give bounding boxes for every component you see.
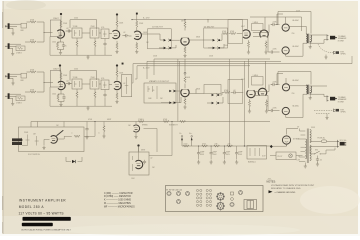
tube V4 driver [181, 38, 189, 45]
bleed resistors to ground ch1 [76, 38, 107, 50]
tube V11 [181, 89, 189, 96]
svg-text:.05: .05 [152, 90, 154, 92]
cathode V10 [115, 91, 118, 104]
svg-text:VOLTAGES READ WITH VTVM FROM P: VOLTAGES READ WITH VTVM FROM POINT [271, 184, 315, 187]
svg-text:1 MEG: 1 MEG [253, 75, 259, 77]
B+ node V2 [116, 13, 118, 20]
ground jack J2 [11, 52, 14, 56]
speaker jack ch1 [310, 35, 337, 44]
speaker jack ch2 [310, 86, 337, 102]
output tube V15 6L6 [282, 105, 299, 114]
tremolo speed resistor 3 [180, 120, 186, 122]
mid bus lines [133, 59, 352, 66]
ground cathode V9 [59, 103, 62, 107]
feedback wire ch2 [70, 69, 97, 81]
svg-text:117 VOLTS 60 ~ 95 WATTS: 117 VOLTS 60 ~ 95 WATTS [19, 212, 64, 216]
primary wires to fuse [310, 141, 338, 146]
filter cap 3 [223, 146, 231, 164]
ground bus ch1 [50, 37, 112, 60]
grid stopper box J3 [21, 73, 27, 82]
coupling to output grids ch2 [254, 74, 284, 113]
tremolo tube V16 [51, 130, 64, 143]
wire grid join ch2 [43, 72, 53, 92]
plate resistor V2 [116, 16, 124, 30]
footswitch diode mark [66, 157, 82, 163]
ext speaker jack ch2 [314, 109, 339, 120]
svg-text:= CHASSIS GROUND: = CHASSIS GROUND [275, 191, 296, 194]
coupling box ch2 PI [228, 80, 243, 104]
title line 1 [19, 199, 67, 216]
page number [267, 179, 272, 181]
svg-text:BIAS ADJ.: BIAS ADJ. [248, 161, 256, 164]
B+ square node mid [122, 63, 124, 65]
ground jack J3 [11, 81, 14, 85]
B+ rail arrows [180, 133, 193, 146]
cathode V2 [115, 41, 118, 54]
svg-text:.02: .02 [123, 32, 125, 34]
top bus ch1 [132, 19, 248, 22]
svg-text:B+ 425V: B+ 425V [143, 17, 150, 19]
svg-text:.1: .1 [71, 133, 72, 135]
phase inverter tube V13 [258, 88, 267, 95]
svg-text:117V. 60~: 117V. 60~ [340, 140, 347, 142]
svg-text:6SL7: 6SL7 [241, 26, 245, 28]
coupling cap ch2 PI [231, 90, 244, 94]
chassis sockets left row [166, 190, 190, 204]
svg-text:2200: 2200 [74, 18, 78, 20]
PI cathode resistors ch2 [248, 99, 268, 113]
coupling box ch2 [189, 85, 221, 94]
svg-text:1/2 6SL7GT: 1/2 6SL7GT [152, 26, 164, 28]
tremolo speed resistor 1 [138, 119, 144, 123]
svg-text:1 MEG: 1 MEG [253, 22, 259, 24]
svg-text:6L6GC: 6L6GC [293, 46, 300, 48]
tremolo bus wire [31, 122, 270, 128]
B+ node osc [137, 144, 139, 159]
mixing resistor Rb [229, 31, 243, 35]
mid bus left drops [132, 59, 154, 83]
rail resistor 1 [183, 143, 189, 147]
bias box [247, 146, 267, 164]
ground jack J4 [11, 102, 14, 106]
ground jack J1 [11, 31, 14, 35]
trem coupling parts [85, 122, 105, 140]
svg-text:1 MEG: 1 MEG [16, 52, 22, 54]
section label 6SL7 left [148, 26, 172, 57]
tremolo control box [19, 127, 85, 152]
svg-text:12AX7: 12AX7 [53, 17, 59, 20]
rail resistor 3 [214, 143, 220, 147]
svg-text:R (OHM) —— RESISTOR: R (OHM) —— RESISTOR [104, 196, 131, 198]
svg-text:SPEED: SPEED [142, 124, 149, 126]
coupling box ch1 PI [228, 20, 243, 44]
connector pair vib upper [169, 90, 180, 93]
input jack J2 [5, 43, 21, 51]
svg-text:VOL: VOL [101, 78, 105, 80]
svg-text:1500: 1500 [52, 42, 56, 44]
connector pair ch2 lower [207, 97, 223, 105]
connector pair ch2 upper [212, 94, 220, 97]
chassis terminal strips [196, 189, 211, 206]
ext speaker text ch1 [341, 51, 347, 55]
svg-text:1 MEG: 1 MEG [16, 102, 22, 104]
svg-text:4700: 4700 [202, 143, 206, 145]
tone pot box 2 ch2 [90, 77, 99, 89]
svg-text:250: 250 [292, 93, 295, 95]
svg-text:250: 250 [292, 33, 295, 35]
long vertical drops [230, 59, 245, 146]
misc value labels [28, 11, 316, 181]
resistor R21 470K [27, 70, 45, 74]
svg-text:6L6GC: 6L6GC [293, 105, 300, 107]
svg-text:1500: 1500 [184, 143, 188, 145]
plate wires to T2 [286, 78, 306, 118]
ext speaker text ch2 [341, 109, 347, 113]
depth pot box [122, 75, 132, 97]
phase inverter tube V6 [260, 30, 269, 37]
grid network box V9 [50, 71, 60, 88]
cathode V3 [135, 42, 138, 54]
speaker jack ch1 text [338, 35, 347, 43]
connector pair ch1 out upper [213, 39, 221, 42]
svg-text:PILOT: PILOT [278, 156, 283, 158]
svg-text:VIBRATO 1/2 6SL7GT: VIBRATO 1/2 6SL7GT [149, 80, 170, 83]
output tube V7 6L6 [282, 20, 299, 31]
resistor box J4 [16, 96, 25, 104]
chassis power transformer [244, 200, 257, 210]
vibrato box [144, 80, 176, 103]
ground T1 [309, 43, 312, 48]
input jack J3 [5, 73, 21, 81]
resistor box J2 [16, 46, 25, 54]
coupling cap C1 [66, 28, 73, 33]
rectifier wires [271, 129, 298, 147]
tube V9 1/2 12AX7 [53, 67, 65, 89]
line cap and ground [316, 156, 322, 167]
oscillator box [129, 152, 149, 175]
svg-text:C (MF) ——— CAPACITOR: C (MF) ——— CAPACITOR [104, 192, 133, 195]
svg-text:12AX7: 12AX7 [53, 67, 59, 70]
output transformer T1 [306, 34, 311, 44]
osc output wire [144, 122, 173, 156]
filter cap 2 [210, 146, 218, 164]
connector pair ch1 out lower [208, 44, 224, 49]
svg-text:8 OHM: 8 OHM [338, 41, 344, 43]
svg-text:1 MEG: 1 MEG [138, 119, 144, 121]
wire vol to V10 [99, 83, 112, 86]
filter cap 4 [235, 146, 243, 164]
ext line ch1 drop [351, 56, 353, 64]
svg-text:M ————— MEGOHMS: M ————— MEGOHMS [104, 203, 131, 205]
tube V10 1/2 12AX7 [114, 81, 121, 89]
B+ node V10 [116, 64, 118, 71]
svg-text:INSTRUMENT AMPLIFIER: INSTRUMENT AMPLIFIER [19, 199, 67, 203]
svg-text:OUTPUT JACKS FOR AC POWER CONS: OUTPUT JACKS FOR AC POWER CONSUMPTION ON… [21, 228, 72, 231]
svg-text:6SN7: 6SN7 [141, 150, 145, 152]
input jack J4 [5, 93, 21, 101]
svg-text:.02: .02 [66, 28, 69, 30]
filter cap 1 [197, 146, 205, 164]
svg-text:B+: B+ [180, 133, 182, 135]
svg-text:V1 V2 V3 C10 C12: V1 V2 V3 C10 C12 [166, 190, 182, 192]
svg-text:.02: .02 [233, 90, 236, 92]
coupling cap C21 [66, 81, 72, 86]
cathode network V1 [56, 38, 66, 51]
svg-text:NOTES:: NOTES: [267, 181, 277, 184]
coupling V2-V3 [122, 34, 131, 37]
svg-text:MF ———— MICROFARADS: MF ———— MICROFARADS [104, 205, 135, 208]
svg-text:.02: .02 [66, 81, 69, 83]
chassis octal sockets [216, 192, 224, 210]
mixing resistor Ra [146, 31, 228, 40]
top bus ch1 right [250, 17, 302, 31]
svg-text:6L6GC: 6L6GC [293, 80, 300, 82]
resistor R1 470K [27, 20, 45, 24]
AC plug P1 [337, 140, 347, 148]
svg-text:INDICATED TO CHASSIS GND.: INDICATED TO CHASSIS GND. [271, 187, 301, 190]
B+ node A [60, 13, 62, 20]
ext speaker jack ch1 [318, 44, 339, 59]
rectifier V19 [282, 136, 300, 146]
B+ square node V3 [136, 13, 138, 22]
connector pair ch1 send [164, 39, 180, 42]
tremolo speed resistor 2 [163, 119, 169, 123]
svg-text:25: 25 [65, 46, 67, 48]
PI network box ch1 [252, 22, 264, 31]
svg-text:VOL: VOL [101, 27, 105, 29]
svg-text:SW.: SW. [315, 150, 319, 152]
signal wire V3 to V5 [142, 34, 164, 40]
svg-text:SPKR.: SPKR. [341, 112, 347, 114]
plate resistor V10 [116, 67, 124, 80]
tube V3 1/2 12AX7 [134, 31, 141, 39]
svg-text:B+ 410V: B+ 410V [143, 68, 150, 70]
tone pot box 1 [72, 26, 82, 38]
plate feed V11 [178, 59, 186, 122]
chassis small parts [230, 190, 243, 206]
svg-text:.02: .02 [123, 83, 125, 85]
tone pot box 1 ch2 [72, 77, 82, 89]
trem tube V17 [133, 122, 139, 133]
transformer taps [298, 129, 305, 162]
PI plate wires ch1 [248, 17, 266, 31]
tube V2 1/2 12AX7 [113, 30, 120, 38]
svg-text:10M: 10M [148, 98, 152, 100]
ground cathode V1 [59, 51, 62, 55]
output tube V14 6L6 [282, 80, 299, 91]
plate wire V4 [190, 39, 213, 41]
plate resistor R3 220K [60, 20, 68, 28]
svg-text:FUSE 2A.: FUSE 2A. [318, 137, 326, 140]
rail resistor 2 [202, 143, 208, 147]
svg-text:6SL7: 6SL7 [241, 79, 245, 81]
cathode network V9 [57, 91, 66, 104]
phase inverter tube V12 [247, 90, 255, 97]
wire box1-box2 ch2 [82, 83, 90, 85]
plate resistor V11 [184, 77, 186, 83]
input jack J1 [5, 23, 21, 31]
ground bus ch2 [50, 87, 112, 110]
volume pot box ch2 [101, 78, 109, 90]
trem tube V17 cathode [134, 133, 137, 139]
svg-text:SPKR.: SPKR. [341, 54, 347, 56]
ground T2 [309, 94, 312, 99]
plate resistor V9 [60, 67, 68, 81]
power switch SW [310, 146, 335, 154]
plate bus ch1 top [278, 12, 311, 34]
wire grid join ch1 [43, 22, 52, 42]
volume pot box [101, 27, 109, 39]
mixing resistor ch2 [219, 90, 230, 95]
transformer ground [304, 163, 307, 169]
redaction bar 2 [22, 223, 53, 227]
svg-text:FOOT SWITCH: FOOT SWITCH [28, 154, 41, 156]
svg-text:.5: .5 [98, 133, 99, 135]
pilot lamp box [262, 152, 303, 160]
bleed resistors to ground ch2 [76, 89, 107, 101]
phase inverter tube V5 [243, 30, 250, 38]
svg-text:2200: 2200 [74, 69, 78, 71]
svg-text:6SN7: 6SN7 [107, 119, 111, 121]
svg-text:TONE: TONE [73, 26, 79, 28]
chassis layout box [166, 186, 264, 212]
PI plate wires ch2 [249, 59, 266, 90]
svg-text:5879: 5879 [181, 21, 185, 23]
connector pair vib lower [161, 97, 181, 104]
plate bus ch2 top [278, 72, 311, 85]
power transformer T3 [305, 129, 311, 164]
redaction bar 1 [23, 217, 71, 221]
rail resistor 4 [227, 143, 233, 147]
resistor R22 470K [25, 90, 44, 94]
notes block [267, 181, 315, 194]
cathode V11 [183, 97, 186, 109]
grid stopper box J1 [21, 23, 27, 32]
wire box1-box2 [82, 32, 90, 34]
resistor R2 470K [25, 40, 44, 44]
connector pair ch1 return lower [159, 45, 176, 49]
output transformer T2 [306, 85, 311, 95]
section label 6SL7 right [204, 26, 228, 57]
svg-text:OSC.: OSC. [131, 178, 136, 180]
svg-text:.05: .05 [320, 160, 322, 162]
B+ filter rail [182, 145, 271, 147]
PI cathode resistors ch1 [247, 40, 268, 54]
footswitch dark label [12, 138, 22, 145]
left edge print marks [1, 12, 4, 233]
junction diamond [270, 145, 273, 148]
tone pot box 2 [90, 26, 99, 38]
plate resistor V3 [136, 21, 144, 31]
speaker jack ch2 text [338, 96, 347, 104]
svg-text:INTENSITY: INTENSITY [169, 125, 179, 127]
output tube V8 6L6 [282, 46, 299, 54]
oscillator tube V18 [136, 160, 143, 168]
tube V1 1/2 12AX7 [53, 17, 65, 38]
svg-text:1500: 1500 [52, 94, 56, 96]
svg-text:TONE: TONE [73, 77, 79, 79]
svg-text:.02: .02 [150, 158, 152, 160]
svg-text:MODEL 280 A: MODEL 280 A [19, 205, 45, 209]
plate resistor V4 [184, 22, 186, 31]
fuse F1 [318, 137, 327, 143]
svg-text:K ————— 1000 OHMS: K ————— 1000 OHMS [104, 200, 131, 202]
wire vol to V2 [99, 32, 112, 35]
PI network box ch2 [252, 75, 264, 85]
B+ node V9 [59, 64, 61, 71]
cathode V4 [183, 46, 186, 58]
grid network box V1 [50, 20, 60, 37]
tremolo box wires [22, 122, 95, 150]
svg-text:B++: B++ [189, 133, 192, 135]
svg-text:8 OHM: 8 OHM [338, 102, 344, 104]
legend [104, 192, 135, 209]
coupling to output grids ch1 [253, 14, 283, 54]
feedback wire ch1 [70, 18, 97, 30]
svg-text:6L6GC: 6L6GC [293, 20, 300, 22]
plate wires to T1 [286, 17, 307, 56]
